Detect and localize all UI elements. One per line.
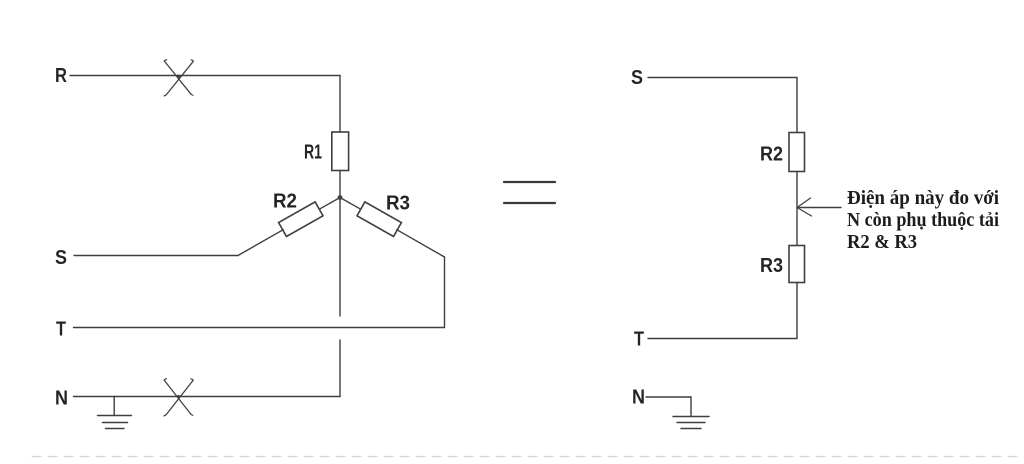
svg-text:R: R <box>55 65 67 87</box>
wire T right horizontal <box>648 338 797 340</box>
wire R2 to S bend <box>238 230 283 256</box>
wire R3 to T branch bend <box>397 230 445 257</box>
svg-text:R2 & R3: R2 & R3 <box>847 231 917 253</box>
svg-text:N còn phụ thuộc tải: N còn phụ thuộc tải <box>847 209 999 231</box>
wire R phase horizontal <box>70 75 340 77</box>
svg-text:S: S <box>631 67 643 89</box>
equivalence sign lower bar <box>504 202 555 204</box>
wire node to neutral upper segment <box>339 198 341 317</box>
wire between R2 and R3 (right) <box>796 172 798 246</box>
svg-text:Điện áp này đo với: Điện áp này đo với <box>847 187 999 209</box>
ground symbol (right) <box>673 417 709 429</box>
ground symbol (left) <box>98 416 132 429</box>
resistor R2 body (right) <box>789 133 805 172</box>
wire R1 to star node <box>339 171 341 198</box>
star node junction dot <box>338 195 343 200</box>
svg-text:T: T <box>56 319 66 341</box>
wire S right drop <box>796 78 798 133</box>
svg-text:S: S <box>55 247 67 269</box>
resistor R2 body (rotated) <box>279 202 323 237</box>
svg-text:R3: R3 <box>760 255 783 277</box>
resistor R3 body (rotated) <box>357 202 401 237</box>
svg-text:N: N <box>632 387 645 409</box>
svg-text:R2: R2 <box>273 191 297 213</box>
wire S phase horizontal <box>74 255 238 257</box>
resistor R3 body (right) <box>789 246 805 283</box>
scan artifact dashed baseline <box>32 456 1018 458</box>
equivalence sign upper bar <box>504 181 555 183</box>
wire S right horizontal <box>648 77 797 79</box>
wire node to R3 <box>340 198 362 210</box>
open-switch X mark on N line <box>164 379 193 416</box>
wire T phase horizontal <box>74 327 445 329</box>
ground stem (left) <box>113 397 115 416</box>
svg-text:N: N <box>55 388 68 410</box>
wire T branch vertical <box>444 257 446 328</box>
svg-text:T: T <box>634 329 644 351</box>
wire N neutral horizontal <box>74 396 341 398</box>
annotation arrow shaft <box>798 207 842 209</box>
resistor R1 body <box>332 132 349 171</box>
svg-text:R1: R1 <box>304 142 322 164</box>
open-switch X mark on R line <box>164 60 193 96</box>
wire node to R2 <box>319 198 341 210</box>
svg-text:R3: R3 <box>386 193 410 215</box>
annotation arrow head <box>797 198 812 216</box>
wire R3 to T (right) <box>796 283 798 339</box>
wire N right horizontal <box>646 396 691 398</box>
wire R drop to R1 <box>339 76 341 133</box>
wire node to neutral lower segment <box>339 340 341 397</box>
ground stem (right) <box>690 397 692 417</box>
svg-text:R2: R2 <box>760 144 783 166</box>
